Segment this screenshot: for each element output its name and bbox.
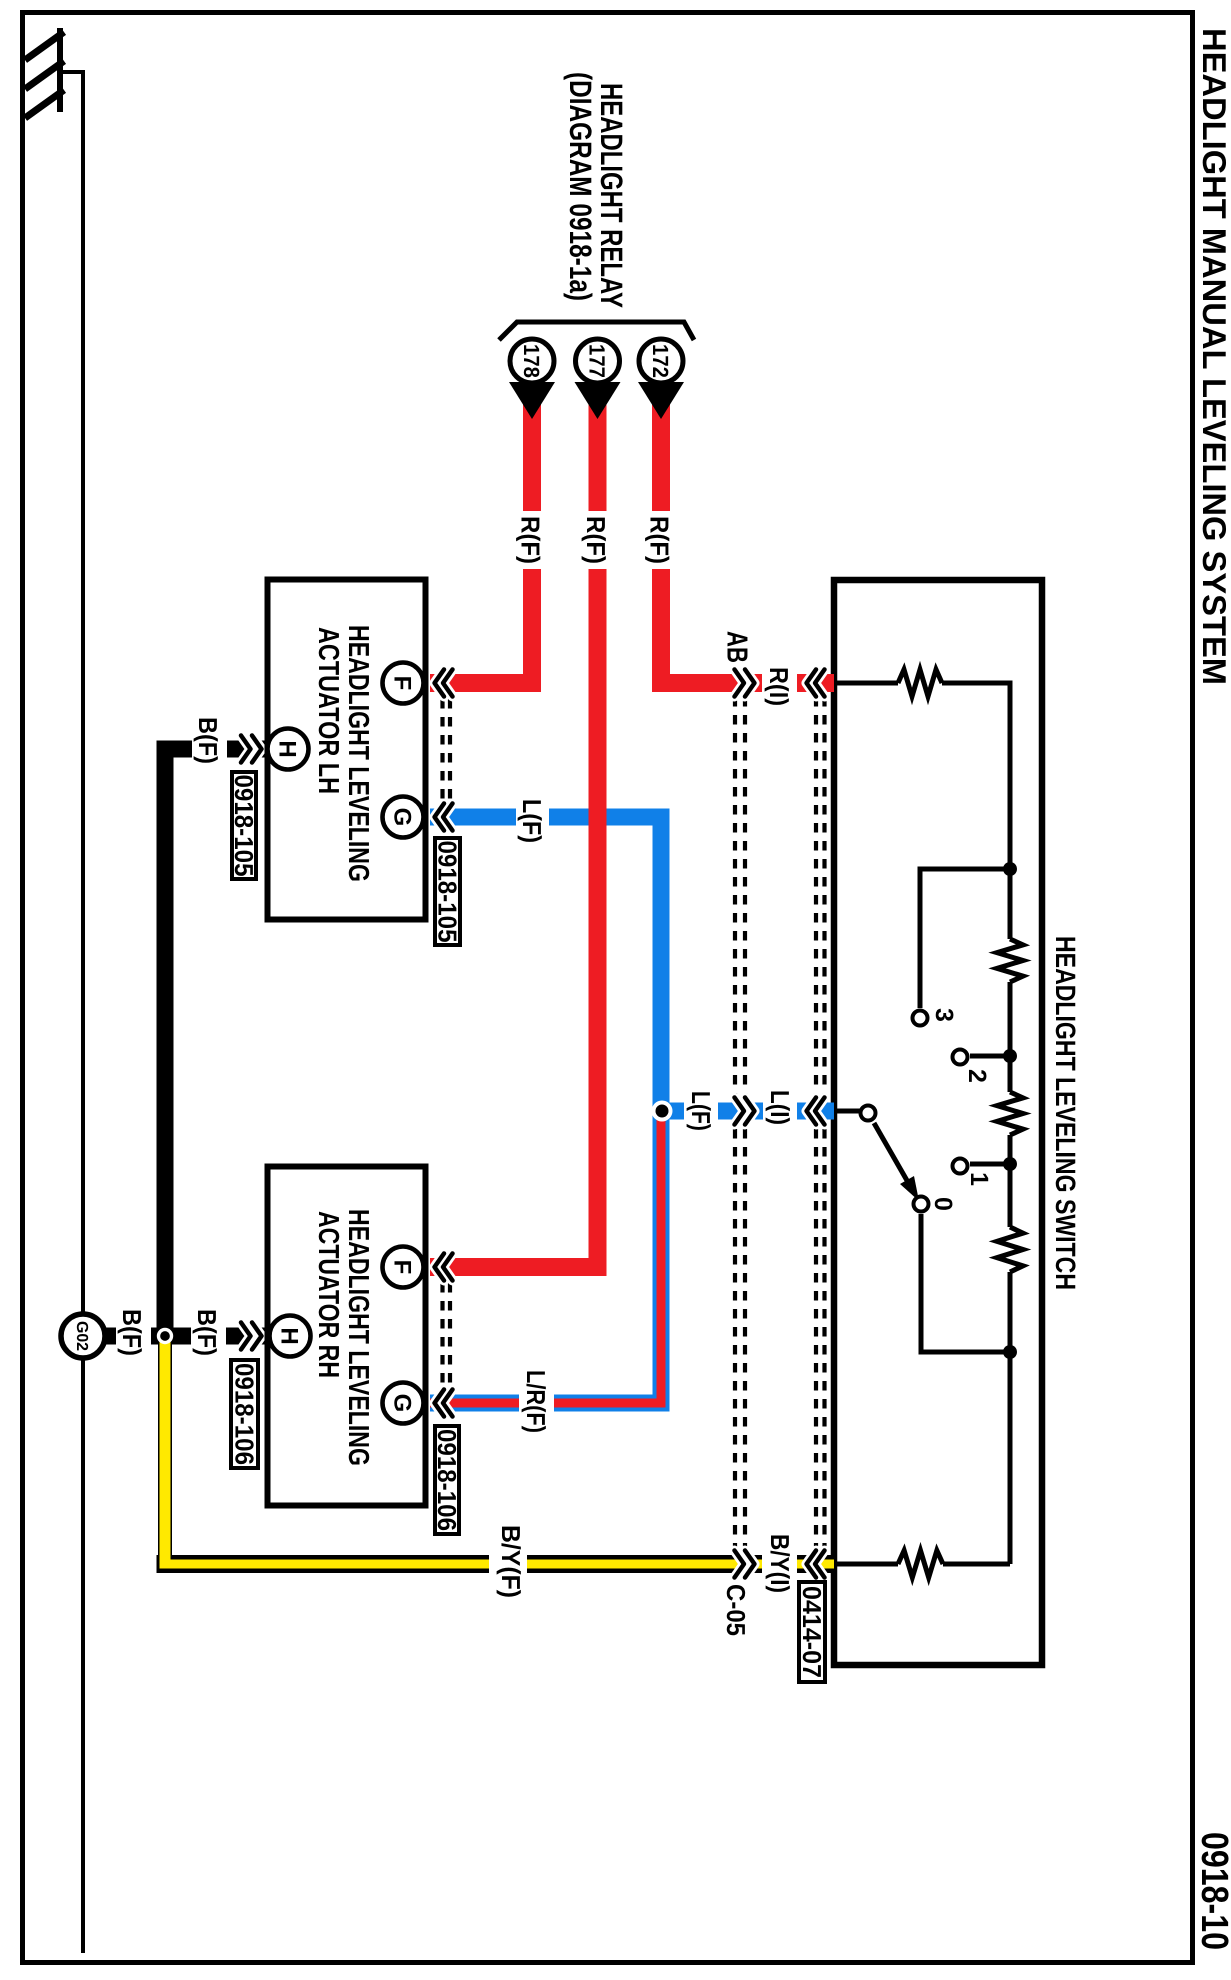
resistor R5 bottom [898,1551,943,1578]
svg-text:B/Y(F): B/Y(F) [496,1525,526,1598]
svg-text:F: F [389,676,416,691]
svg-text:HEADLIGHT LEVELING: HEADLIGHT LEVELING [342,625,374,882]
terminal F RH [383,1247,424,1288]
svg-text:177: 177 [585,344,610,378]
wire switch bottom internal [834,1562,1010,1567]
relay pin 177 [576,339,620,383]
arrow wire 172 [638,382,684,419]
svg-text:(DIAGRAM 0918-1a): (DIAGRAM 0918-1a) [563,72,598,301]
connector chevron RH actuator G [435,1390,453,1417]
svg-text:0918-10: 0918-10 [1193,1832,1231,1950]
wire branch to contact 0 [921,1214,1010,1352]
connector chevron red AB side [735,670,755,697]
wire B/Y(F) yellow stripe horizontal [160,1560,835,1569]
connector label 0414-07 [799,1582,825,1682]
svg-text:L/R(F): L/R(F) [521,1370,551,1433]
svg-text:3: 3 [930,1008,958,1022]
wire branch to contact 1 [970,1162,1010,1167]
wire B/Y(F) casing vertical [158,1336,172,1573]
connector chevron RH actuator F [435,1254,453,1281]
svg-text:H: H [276,1327,303,1344]
wire L/R(F) red stripe [430,1120,661,1403]
svg-text:2: 2 [963,1069,991,1083]
junction dot node 3 [1003,1157,1017,1171]
svg-text:0918-105: 0918-105 [433,841,463,943]
wire branch to contact 3 [920,869,1010,1008]
svg-text:B(F): B(F) [117,1309,147,1356]
svg-text:178: 178 [519,344,544,378]
svg-text:R(F): R(F) [516,516,546,564]
resistor R4 [997,1227,1023,1272]
svg-text:HEADLIGHT LEVELING SWITCH: HEADLIGHT LEVELING SWITCH [1050,936,1081,1290]
svg-text:G02: G02 [73,1321,90,1351]
svg-text:R(I): R(I) [764,667,794,706]
svg-text:C-05: C-05 [721,1584,751,1636]
label R(F) on wire 177 [580,511,613,569]
junction dot node 4 [1003,1345,1017,1359]
relay pin 178 [510,339,554,383]
svg-text:R(F): R(F) [645,516,675,564]
svg-text:L(F): L(F) [686,1091,716,1131]
terminal G RH [383,1383,424,1424]
wire R(F) 177 red [430,400,598,1267]
wire resistor chain [1008,869,1013,1564]
wire B/Y(F) yellow stripe vertical [160,1336,171,1569]
connector label 0918-105 (H LH) [232,772,256,879]
connector dash pair C-05 [733,697,737,1549]
label R(F) on wire 172 [643,511,676,569]
label B(F) left of splice [116,1305,151,1363]
svg-text:F: F [389,1260,416,1275]
svg-text:HEADLIGHT RELAY: HEADLIGHT RELAY [594,83,629,308]
wire B(F) black LH actuator H [165,749,267,1336]
svg-text:B(F): B(F) [192,1309,222,1356]
junction dot node 1 [1003,862,1017,876]
ground symbol [25,28,64,118]
ground bus wire [62,72,83,1953]
relay brace [499,322,694,340]
svg-text:ACTUATOR RH: ACTUATOR RH [312,1211,344,1378]
label L(F) at splice [684,1086,718,1137]
wire wiper feed [834,1109,860,1114]
svg-text:L(F): L(F) [517,799,547,843]
terminal G LH [383,797,424,838]
connector chevron LH actuator H [241,736,262,763]
ground G02 [61,1314,105,1358]
switch pivot contact [861,1106,876,1121]
switch box HEADLIGHT LEVELING SWITCH outline [834,580,1042,1665]
switch wiper arm [874,1123,909,1184]
connector chevron blue AB side [735,1098,755,1125]
svg-text:0: 0 [929,1197,957,1211]
connector chevron yellow switch side [807,1551,825,1578]
label B/Y(I) switch side [762,1528,797,1599]
box HEADLIGHT LEVELING ACTUATOR LH [268,580,426,920]
svg-text:0414-07: 0414-07 [797,1586,827,1678]
label B(F) right of splice [191,1305,226,1363]
connector label 0918-106 (H RH) [231,1360,258,1468]
svg-text:G: G [389,808,416,827]
svg-text:0918-106: 0918-106 [230,1363,260,1465]
svg-text:172: 172 [648,344,673,378]
label R(I) switch side [762,662,797,711]
label L(F) at LH actuator G [516,794,549,849]
svg-text:HEADLIGHT MANUAL LEVELING SYST: HEADLIGHT MANUAL LEVELING SYSTEM [1196,28,1231,685]
svg-text:B/Y(I): B/Y(I) [765,1534,795,1593]
switch contact 2 [953,1050,968,1065]
connector chevron LH actuator F [435,670,453,697]
arrow wire 177 [575,382,621,419]
box HEADLIGHT LEVELING ACTUATOR RH [268,1167,426,1506]
wire R(F) 178 red [430,400,532,683]
wire B/Y(F) casing horizontal [157,1555,835,1573]
svg-text:R(F): R(F) [581,516,611,564]
wire L(F)/LR(F) blue from LH actuator G to RH actuator G [430,817,661,1403]
label L/R(F) on pair wire [519,1365,554,1439]
connector chevron blue switch side [807,1098,825,1125]
svg-text:1: 1 [965,1172,993,1186]
junction dot node 2 [1003,1049,1017,1063]
svg-text:H: H [274,740,301,757]
svg-text:0918-106: 0918-106 [432,1429,462,1531]
connector label 0918-106 (G RH) [435,1426,459,1534]
resistor R2 [997,939,1023,982]
svg-text:0918-105: 0918-105 [229,775,259,877]
wire R(F) 172 red [661,400,834,683]
switch contact 1 [953,1159,968,1174]
svg-text:B(F): B(F) [193,717,223,764]
connector dash pair LH actuator 0918-105 [440,699,444,803]
svg-text:L(I): L(I) [765,1090,795,1125]
terminal H LH [268,729,309,770]
terminal F LH [383,663,424,704]
switch contact 0 [914,1197,929,1212]
label B/Y(F) on yellow wire [489,1519,527,1604]
switch wiper arrowhead [900,1176,919,1201]
connector chevron RH actuator H [241,1323,262,1350]
connector chevron yellow C-05 side [735,1551,755,1578]
label R(F) on wire 178 [514,511,547,569]
resistor R3 [997,1092,1023,1135]
svg-text:AB: AB [721,631,753,663]
connector chevron red switch side [807,670,825,697]
switch contact 3 [913,1011,928,1026]
connector dash pair 0414-07 [814,697,818,1549]
wire B(F) black G02 to RH actuator H [103,1328,267,1345]
terminal H RH [270,1316,311,1357]
connector dash pair RH actuator 0918-106 [440,1283,444,1387]
svg-text:HEADLIGHT LEVELING: HEADLIGHT LEVELING [342,1209,374,1466]
label B(F) at LH actuator H [192,713,227,771]
svg-text:ACTUATOR LH: ACTUATOR LH [312,627,344,794]
svg-text:G: G [389,1394,416,1413]
wire switch top internal [834,683,1010,869]
arrow wire 178 [509,382,555,419]
wire branch to contact 2 [970,1054,1010,1059]
label L(I) switch side [763,1086,797,1130]
connector chevron LH actuator G [435,804,453,831]
junction node ground splice [157,1328,173,1344]
junction node L(F) splice dot [652,1101,673,1122]
connector label 0918-105 (G LH) [435,838,460,945]
wire L(F) blue branch to switch [662,1103,834,1120]
resistor R1 top [898,670,942,697]
relay pin 172 [639,339,683,383]
